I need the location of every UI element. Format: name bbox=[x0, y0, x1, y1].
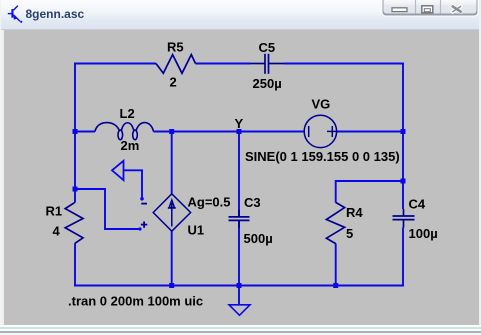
svg-text:R5: R5 bbox=[167, 40, 184, 55]
svg-text:U1: U1 bbox=[188, 223, 205, 238]
svg-text:2: 2 bbox=[170, 75, 177, 90]
capacitor C4 bbox=[393, 209, 415, 228]
ground bbox=[229, 305, 250, 316]
minimize button glyph bbox=[392, 8, 407, 12]
wire top row left of R5 bbox=[74, 63, 156, 65]
wire left vertical bbox=[74, 63, 76, 203]
svg-text:R4: R4 bbox=[346, 205, 363, 220]
wire U1 column upper bbox=[171, 132, 173, 194]
node junction R4 right bbox=[401, 179, 406, 184]
wire U1 plus input bbox=[75, 189, 140, 229]
svg-text:C5: C5 bbox=[259, 40, 276, 55]
svg-text:100µ: 100µ bbox=[409, 226, 438, 241]
svg-text:L2: L2 bbox=[120, 106, 135, 121]
node junction U1 bottom bbox=[169, 283, 174, 288]
capacitor C5 bbox=[250, 54, 285, 74]
window left frame bbox=[0, 30, 4, 325]
svg-text:2m: 2m bbox=[121, 138, 140, 153]
node junction R1 top bbox=[73, 187, 78, 192]
wire middle row L2 to VG bbox=[154, 131, 305, 133]
bottom window bands bbox=[0, 325, 481, 327]
wire R4 bottom bbox=[335, 244, 337, 286]
svg-text:500µ: 500µ bbox=[244, 231, 273, 246]
plus pin dot bbox=[138, 227, 141, 230]
voltage source VG bbox=[304, 115, 338, 147]
resistor R4 bbox=[326, 202, 344, 243]
window right frame bbox=[479, 0, 481, 335]
node junction ground bbox=[237, 283, 242, 288]
wire middle row VG to right vertical bbox=[337, 131, 404, 133]
svg-text:250µ: 250µ bbox=[253, 76, 282, 91]
node junction left-middle bbox=[73, 129, 78, 134]
wire C3 column upper bbox=[238, 132, 240, 217]
svg-text:4: 4 bbox=[53, 224, 61, 239]
node Y junction bbox=[237, 129, 242, 134]
node junction right-middle bbox=[401, 129, 406, 134]
wire C3 column lower bbox=[238, 221, 240, 286]
wire top row right of C5 bbox=[285, 63, 405, 65]
node junction U1 top bbox=[169, 129, 174, 134]
wire left vertical below R1 bbox=[74, 243, 76, 286]
wire middle row left of L2 bbox=[75, 131, 95, 133]
svg-text:.tran 0 200m 100m uic: .tran 0 200m 100m uic bbox=[68, 294, 203, 309]
svg-text:5: 5 bbox=[346, 226, 353, 241]
close button glyph bbox=[451, 5, 462, 14]
wire bottom row bbox=[74, 285, 404, 287]
wire right vertical below C4 bbox=[402, 228, 404, 287]
window title text bbox=[26, 7, 85, 21]
minus pin dot bbox=[140, 197, 144, 201]
svg-text:C4: C4 bbox=[409, 196, 426, 211]
title bar bbox=[1, 0, 480, 30]
capacitor C3 bbox=[229, 210, 250, 229]
maximize button glyph bbox=[422, 6, 433, 13]
wire R4 top jog bbox=[336, 181, 403, 203]
wire right vertical bbox=[402, 64, 404, 210]
wire U1 minus input bbox=[124, 170, 143, 197]
svg-text:SINE(0 1 159.155 0 0 135): SINE(0 1 159.155 0 0 135) bbox=[245, 149, 400, 164]
svg-text:C3: C3 bbox=[244, 195, 261, 210]
node junction R4 bottom bbox=[333, 283, 338, 288]
inductor L2 bbox=[95, 123, 154, 140]
svg-text:VG: VG bbox=[312, 97, 331, 112]
wire top row R5 to C5 bbox=[196, 63, 251, 65]
app icon (blue transistor glyph) bbox=[8, 6, 23, 23]
resistor R1 bbox=[65, 202, 83, 243]
wire ground stub bbox=[238, 286, 240, 305]
svg-text:R1: R1 bbox=[46, 204, 63, 219]
resistor R5 bbox=[156, 55, 196, 74]
titlebar buttons group bbox=[382, 0, 479, 17]
U1 plus mark bbox=[141, 224, 147, 226]
dependent source U1 bbox=[141, 194, 191, 231]
U1 minus mark bbox=[141, 203, 147, 205]
svg-text:Y: Y bbox=[235, 116, 244, 131]
current sense arrow bbox=[112, 161, 124, 180]
svg-text:Ag=0.5: Ag=0.5 bbox=[188, 195, 231, 210]
wire U1 column lower bbox=[171, 232, 173, 286]
